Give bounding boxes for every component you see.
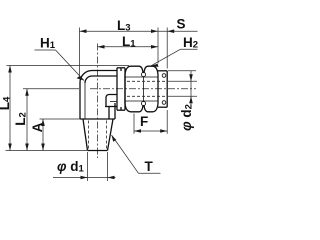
- svg-text:A: A: [30, 122, 45, 132]
- thread R taper left flank: [83, 119, 88, 151]
- svg-text:L3: L3: [117, 18, 131, 34]
- dimension phi d2: [168, 80, 197, 82]
- thread R tip edge: [88, 150, 108, 152]
- wire inner corner arc: [85, 76, 92, 83]
- svg-text:T: T: [145, 159, 154, 174]
- svg-text:S: S: [177, 17, 186, 32]
- dimension S: [166, 28, 168, 69]
- wire bottom extension line thread tip reference: [6, 150, 88, 152]
- wire cylinder bottom edge: [105, 106, 117, 108]
- wire top edge horizontal leg: [92, 70, 117, 72]
- svg-text:φ d1: φ d1: [57, 159, 85, 175]
- nut right face: [157, 75, 159, 104]
- wire inner top line: [92, 75, 117, 77]
- wire leg right edge: [114, 103, 116, 119]
- dimension F: [133, 114, 135, 134]
- label T leader: [139, 172, 161, 174]
- svg-text:L4: L4: [0, 96, 13, 110]
- nut bore hidden line top: [127, 80, 167, 82]
- stub bite ring circle bottom: [162, 101, 166, 105]
- svg-text:F: F: [140, 114, 148, 129]
- label H2 leader: [181, 48, 198, 50]
- dimension A: [40, 118, 81, 120]
- node centerline horizontal port axis: [90, 88, 196, 90]
- svg-text:L2: L2: [13, 112, 29, 126]
- thread root hidden line left: [88, 121, 90, 150]
- nut notch circle bottom: [141, 101, 145, 105]
- wire cylinder inner bottom line: [110, 101, 117, 103]
- wire crotch fillet: [106, 95, 117, 107]
- dimension L4: [9, 66, 11, 151]
- nut bottom left hump: [125, 104, 143, 112]
- dimension phi d1: [87, 152, 89, 181]
- svg-text:H1: H1: [40, 35, 56, 51]
- nut top right hump: [144, 66, 158, 74]
- nut notch circle top: [141, 72, 145, 76]
- body flange collar: [117, 68, 125, 110]
- wire thread shoulder: [80, 118, 115, 120]
- thread R taper right flank: [108, 119, 114, 151]
- wire leg inner right line: [108, 107, 110, 120]
- thread root hidden line right: [106, 121, 108, 150]
- node centerline vertical leg axis: [97, 44, 99, 159]
- dimension L1: [98, 46, 159, 48]
- nut bottom right hump: [144, 104, 158, 112]
- svg-text:H2: H2: [183, 35, 198, 51]
- nut bore hidden line bottom: [127, 95, 167, 97]
- stub bite ring circle top: [162, 74, 166, 78]
- nut shoulder line bottom: [125, 100, 158, 102]
- nut H2 hex profile: [125, 66, 158, 112]
- tube stub: [158, 71, 167, 107]
- wire left edge of vertical leg: [79, 83, 81, 120]
- nut top left hump: [125, 66, 143, 74]
- label H1 leader: [35, 49, 56, 51]
- wire inner left chamfer line: [84, 83, 86, 119]
- wire top extension line overall-height reference: [7, 65, 130, 67]
- svg-text:φ d2: φ d2: [179, 104, 195, 131]
- dimension L2: [23, 88, 79, 90]
- body elbow outline: [80, 71, 117, 151]
- nut shoulder line top: [125, 76, 158, 78]
- svg-text:L1: L1: [122, 34, 136, 50]
- nut hex corner edge: [143, 77, 145, 102]
- nut left face: [124, 75, 126, 104]
- dimension L3: [79, 28, 81, 80]
- wire outer corner arc: [80, 71, 92, 83]
